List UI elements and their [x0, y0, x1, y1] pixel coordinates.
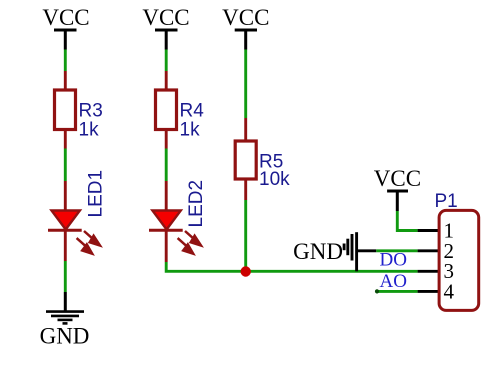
- pin wire R3 top (dark red): [64, 71, 67, 90]
- svg-text:DO: DO: [380, 250, 407, 271]
- ground GND (earth symbol, column 1): [40, 292, 90, 349]
- pin wire R4 top (dark red): [165, 71, 168, 90]
- dangling wire end marker on AO: [375, 289, 379, 293]
- svg-text:P1: P1: [435, 191, 458, 212]
- pin stub pin 2 (black): [418, 249, 438, 252]
- power symbol VCC (net VCC, column 1): [42, 5, 89, 50]
- svg-text:R4: R4: [180, 101, 205, 122]
- wire VCC to pin 1 (green corner): [397, 211, 417, 231]
- LED LED2: [149, 180, 207, 254]
- pin wire R4 bottom (dark red): [165, 130, 168, 149]
- connector P1: [435, 191, 479, 311]
- svg-text:LED1: LED1: [86, 170, 107, 218]
- resistor R3: [55, 90, 103, 141]
- power symbol VCC (net VCC, column 2): [142, 5, 189, 50]
- svg-text:VCC: VCC: [42, 5, 89, 30]
- LED LED1: [48, 170, 107, 254]
- power symbol VCC (net VCC, at connector): [374, 166, 421, 211]
- wire VCC to R4 (green segment): [165, 50, 168, 72]
- svg-text:1k: 1k: [79, 120, 100, 141]
- wire horizontal net DO to pin 3 (green): [246, 270, 418, 273]
- pin stub pin 4 (black): [418, 290, 438, 293]
- wire GND to pin 2 (green segment): [376, 249, 417, 252]
- junction node (red dot): [241, 266, 251, 276]
- pin wire LED1 anode (dark red): [64, 181, 67, 216]
- svg-text:VCC: VCC: [374, 166, 421, 191]
- resistor R5: [235, 141, 290, 190]
- pin wire R5 top (dark red): [244, 118, 247, 141]
- pin stub pin 1 (black): [418, 229, 438, 232]
- wire R5 to horizontal net (green segment): [244, 200, 247, 271]
- pin wire R5 bottom (dark red): [244, 179, 247, 200]
- pin stub pin 3 (black): [418, 270, 438, 273]
- svg-text:VCC: VCC: [142, 5, 189, 30]
- wire VCC to R5 (green segment): [244, 50, 247, 119]
- resistor R4: [156, 90, 205, 141]
- wire LED1 to GND (green segment): [64, 261, 67, 292]
- wire R3 to LED1 (green segment): [64, 149, 67, 182]
- pin wire LED2 anode (dark red): [165, 181, 168, 216]
- power symbol VCC (net VCC, column 3): [222, 5, 269, 50]
- wire R4 to LED2 (green segment): [165, 149, 168, 182]
- svg-text:GND: GND: [293, 239, 343, 264]
- wire LED2 cathode down to horizontal net (green corner): [166, 262, 246, 271]
- svg-text:1k: 1k: [180, 120, 201, 141]
- svg-text:GND: GND: [40, 324, 90, 349]
- pin wire R3 bottom (dark red): [64, 130, 67, 149]
- svg-text:VCC: VCC: [222, 5, 269, 30]
- svg-text:10k: 10k: [259, 169, 290, 190]
- wire VCC to R3 (green segment): [64, 50, 67, 72]
- svg-text:R3: R3: [79, 101, 103, 122]
- svg-text:AO: AO: [380, 271, 407, 292]
- svg-text:LED2: LED2: [186, 180, 207, 228]
- wire net AO to pin 4 (green): [377, 290, 418, 293]
- pin wire LED1 cathode (dark red): [64, 230, 67, 261]
- pin wire LED2 cathode (dark red): [165, 230, 168, 262]
- ground GND (sideways symbol at pin 2): [293, 232, 376, 271]
- svg-text:4: 4: [444, 279, 455, 303]
